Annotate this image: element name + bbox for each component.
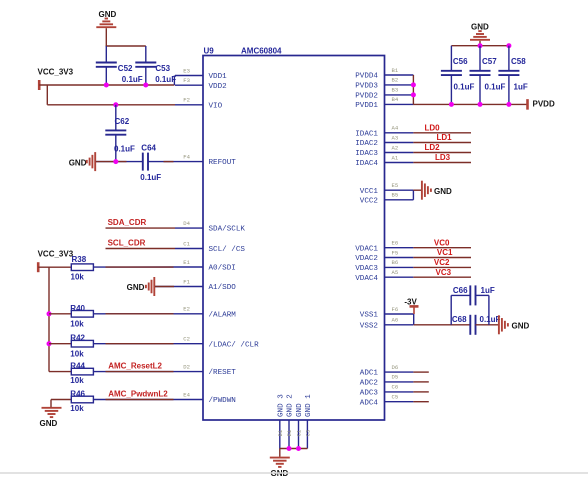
ground R46 <box>40 408 62 428</box>
svg-text:VCC1: VCC1 <box>360 188 379 196</box>
svg-text:AMC60804: AMC60804 <box>241 47 282 56</box>
ground VCC1/VCC2 <box>422 181 452 200</box>
svg-text:GND: GND <box>434 187 452 196</box>
wire R44 to /RESET <box>93 371 175 373</box>
pin VDAC1 (E6) <box>355 240 413 254</box>
pin PVDD2 (B3) <box>355 87 413 101</box>
svg-text:/PWDWN: /PWDWN <box>209 397 236 405</box>
svg-text:B6: B6 <box>392 259 399 266</box>
ground REFOUT <box>69 152 96 171</box>
svg-text:C1: C1 <box>296 429 303 436</box>
wire VC2 <box>413 266 471 268</box>
pin GND (C1) bottom <box>296 403 304 449</box>
svg-text:B3: B3 <box>392 87 399 94</box>
wire C58 top lead <box>508 46 510 71</box>
pin GND 3 (D1) bottom <box>277 394 285 449</box>
wire PVDD rail <box>413 103 527 105</box>
svg-text:ADC3: ADC3 <box>360 390 379 398</box>
wire ADC4 stub <box>413 401 428 403</box>
svg-text:/ALARM: /ALARM <box>209 311 237 319</box>
svg-text:C66: C66 <box>453 286 468 295</box>
wire LD0 <box>413 132 471 134</box>
svg-text:VIO: VIO <box>209 102 223 110</box>
wire LD2 <box>413 152 471 154</box>
svg-text:C3: C3 <box>305 430 312 437</box>
IC U9 AMC60804 body <box>203 56 385 421</box>
wire R42 to /LDAC <box>93 343 175 345</box>
wire C53 bottom lead <box>145 67 147 85</box>
svg-text:VSS2: VSS2 <box>360 322 379 330</box>
capacitor C53 <box>135 63 176 84</box>
pin VDAC3 (B6) <box>355 259 413 273</box>
net label VC3 <box>436 268 452 277</box>
svg-text:10k: 10k <box>70 404 84 413</box>
capacitor C64 <box>140 143 161 182</box>
svg-text:C57: C57 <box>482 57 497 66</box>
wire C57 top lead <box>479 46 481 71</box>
pin IDAC4 (A1) <box>355 154 413 168</box>
wire R38 to A0/SDI <box>93 266 175 268</box>
pin /LDAC/ /CLR (C2) <box>175 336 259 350</box>
svg-text:U9: U9 <box>204 47 215 56</box>
junction GND2 <box>287 446 292 451</box>
wire GND to R46 <box>51 399 71 401</box>
wire VCC pin join <box>412 190 414 200</box>
wire C66 right link <box>476 294 489 296</box>
pin PVDD3 (B2) <box>355 77 413 91</box>
junction C52/rail <box>104 83 109 88</box>
resistor R42 <box>70 334 93 359</box>
wire -3V drop <box>413 306 415 314</box>
svg-text:0.1uF: 0.1uF <box>454 83 475 92</box>
junction C62/REFOUT <box>113 159 118 164</box>
svg-text:A3: A3 <box>392 134 399 141</box>
svg-text:C1: C1 <box>183 240 190 247</box>
net label LD0 <box>425 124 441 133</box>
wire LD1 <box>413 142 471 144</box>
svg-text:A6: A6 <box>392 317 399 324</box>
wire C56 top lead <box>450 46 452 71</box>
wire bottom pin join <box>280 448 308 450</box>
svg-text:10k: 10k <box>70 376 84 385</box>
wire SDA_CDR <box>106 227 176 229</box>
capacitor C52 <box>96 63 143 84</box>
svg-text:-3V: -3V <box>404 297 417 306</box>
svg-text:D5: D5 <box>392 374 399 381</box>
wire GND to A1/SDO <box>155 286 175 288</box>
capacitor C66 <box>453 285 495 305</box>
svg-text:A4: A4 <box>392 125 399 132</box>
svg-text:IDAC2: IDAC2 <box>355 140 378 148</box>
svg-text:/LDAC/ /CLR: /LDAC/ /CLR <box>209 341 260 349</box>
ground bottom <box>270 458 290 478</box>
pin VDD2 (F3) <box>175 77 227 91</box>
svg-text:VDAC3: VDAC3 <box>355 265 378 273</box>
svg-text:VDAC1: VDAC1 <box>355 245 378 253</box>
IC part name AMC60804 <box>241 47 282 56</box>
capacitor C68 <box>452 315 501 335</box>
svg-text:REFOUT: REFOUT <box>209 159 237 167</box>
svg-text:A2: A2 <box>392 144 399 151</box>
svg-text:0.1uF: 0.1uF <box>155 75 176 84</box>
wire SCL_CDR <box>106 248 176 250</box>
svg-text:C52: C52 <box>118 64 133 73</box>
wire C62 bottom lead <box>115 135 117 162</box>
svg-text:VC0: VC0 <box>434 238 450 247</box>
svg-text:C5: C5 <box>392 394 399 401</box>
svg-text:A1: A1 <box>392 154 399 161</box>
ground top-left <box>96 10 116 27</box>
junction GND <box>296 446 301 451</box>
wire C52 top lead <box>105 46 107 63</box>
svg-text:B1: B1 <box>392 67 399 74</box>
svg-text:LD3: LD3 <box>435 153 451 162</box>
svg-text:AMC_PwdwnL2: AMC_PwdwnL2 <box>108 390 168 399</box>
svg-text:A1/SDO: A1/SDO <box>209 284 237 292</box>
svg-text:SCL_CDR: SCL_CDR <box>108 239 146 248</box>
svg-text:SDA/SCLK: SDA/SCLK <box>209 226 246 234</box>
svg-text:E6: E6 <box>392 240 399 247</box>
net label LD2 <box>425 143 441 152</box>
junction C62/VIO <box>113 102 118 107</box>
svg-text:D2: D2 <box>183 363 190 370</box>
svg-text:IDAC1: IDAC1 <box>355 130 378 138</box>
svg-text:PVDD3: PVDD3 <box>355 83 378 91</box>
wire VSS2 to C68 <box>414 324 471 326</box>
pin PVDD1 (B4) <box>355 96 413 110</box>
wire R46 to /PWDWN <box>93 399 175 401</box>
svg-text:F4: F4 <box>183 153 190 160</box>
svg-text:F5: F5 <box>392 249 399 256</box>
junction rail/C57 <box>478 43 483 48</box>
svg-text:R38: R38 <box>72 255 87 264</box>
wire C57 bottom lead <box>479 75 481 104</box>
resistor R38 <box>71 255 94 282</box>
pin VIO (F2) <box>175 97 223 111</box>
svg-text:VC2: VC2 <box>434 258 450 267</box>
svg-text:GND: GND <box>512 321 530 330</box>
wire VCC to GND <box>413 189 421 191</box>
pin VCC2 (B5) <box>360 192 414 206</box>
pin PVDD4 (B1) <box>355 67 413 81</box>
wire VC1 <box>413 257 471 259</box>
pin ADC4 (C5) <box>360 394 414 408</box>
svg-text:R40: R40 <box>70 304 85 313</box>
svg-text:E1: E1 <box>286 429 293 436</box>
svg-text:D4: D4 <box>183 220 190 227</box>
junction bus/R40 <box>47 311 52 316</box>
junction C56/PVDD <box>449 102 454 107</box>
svg-text:R44: R44 <box>70 361 85 370</box>
svg-text:ADC1: ADC1 <box>360 370 379 378</box>
ground C68 <box>499 315 530 334</box>
svg-text:GND: GND <box>99 10 117 19</box>
svg-text:E2: E2 <box>183 306 190 313</box>
svg-text:C53: C53 <box>155 64 170 73</box>
capacitor C62 <box>105 117 135 153</box>
wire C68 to GND <box>476 324 499 326</box>
wire VCC drop to VIO <box>46 85 48 105</box>
svg-text:LD1: LD1 <box>437 133 453 142</box>
svg-text:E4: E4 <box>183 391 190 398</box>
capacitor C57 <box>470 57 506 91</box>
svg-text:VDAC2: VDAC2 <box>355 255 378 263</box>
svg-text:0.1uF: 0.1uF <box>140 173 161 182</box>
svg-text:C68: C68 <box>452 315 467 324</box>
wire ADC1 stub <box>413 371 428 373</box>
svg-text:B5: B5 <box>392 192 399 199</box>
net label LD1 <box>437 133 453 142</box>
pin VDAC2 (F5) <box>355 249 413 263</box>
svg-text:GND 2: GND 2 <box>287 394 295 417</box>
svg-text:10k: 10k <box>70 320 84 329</box>
pin IDAC1 (A4) <box>355 125 413 139</box>
svg-text:D6: D6 <box>392 364 399 371</box>
pin A0/SDI (E1) <box>175 259 236 273</box>
junction C58/PVDD <box>506 102 511 107</box>
svg-text:GND: GND <box>127 283 145 292</box>
wire ADC2 stub <box>413 381 428 383</box>
svg-text:D1: D1 <box>277 429 284 436</box>
pin ADC3 (C6) <box>360 384 414 398</box>
svg-text:LD2: LD2 <box>425 143 441 152</box>
junction C57/PVDD <box>478 102 483 107</box>
svg-text:VDD2: VDD2 <box>209 83 228 91</box>
svg-text:A5: A5 <box>392 269 399 276</box>
svg-text:GND: GND <box>69 158 87 167</box>
pin VDD1 (E3) <box>175 67 227 81</box>
svg-text:IDAC3: IDAC3 <box>355 150 378 158</box>
wire C66 left link <box>451 294 470 296</box>
svg-text:VCC_3V3: VCC_3V3 <box>38 68 74 77</box>
wire VDD1 riser <box>173 76 175 86</box>
net label AMC_ResetL2 <box>108 362 162 371</box>
wire top rail C52-C53 <box>106 45 146 47</box>
wire VC3 <box>413 276 471 278</box>
pin /PWDWN (E4) <box>175 391 236 405</box>
pin IDAC3 (A2) <box>355 144 413 158</box>
net label VC2 <box>434 258 450 267</box>
svg-text:PVDD: PVDD <box>533 99 555 108</box>
pin A1/SDO (F1) <box>175 278 236 292</box>
net label SCL_CDR <box>108 239 146 248</box>
svg-text:AMC_ResetL2: AMC_ResetL2 <box>108 362 162 371</box>
svg-text:GND: GND <box>40 419 58 428</box>
pin SCL/ /CS (C1) <box>175 240 245 254</box>
svg-text:10k: 10k <box>70 349 84 358</box>
svg-text:GND 1: GND 1 <box>305 394 313 417</box>
wire R40 to /ALARM <box>93 313 175 315</box>
wire bottom GND stem <box>279 449 281 457</box>
svg-text:VC3: VC3 <box>436 268 452 277</box>
wire bus to R42 <box>49 343 71 345</box>
svg-text:F3: F3 <box>183 77 190 84</box>
net label VC1 <box>437 248 453 257</box>
ground A1/SDO <box>127 277 155 296</box>
wire VIO <box>47 104 175 106</box>
net label AMC_PwdwnL2 <box>108 390 168 399</box>
wire LD3 <box>413 162 471 164</box>
svg-text:1uF: 1uF <box>481 286 495 295</box>
svg-text:E3: E3 <box>183 67 190 74</box>
svg-text:VDAC4: VDAC4 <box>355 275 378 283</box>
svg-text:0.1uF: 0.1uF <box>485 83 506 92</box>
svg-text:0.1uF: 0.1uF <box>480 315 501 324</box>
svg-text:VC1: VC1 <box>437 248 453 257</box>
svg-text:VSS1: VSS1 <box>360 312 379 320</box>
resistor R40 <box>70 304 93 329</box>
net label SDA_CDR <box>108 218 147 227</box>
svg-text:C62: C62 <box>115 117 130 126</box>
pin SDA/SCLK (D4) <box>175 220 245 234</box>
power VCC_3V3 lower <box>38 249 74 272</box>
svg-text:0.1uF: 0.1uF <box>122 75 143 84</box>
junction PVDD2 <box>411 92 416 97</box>
pin /ALARM (E2) <box>175 306 236 320</box>
pin GND 2 (E1) bottom <box>286 394 294 449</box>
junction rail/C58 <box>506 43 511 48</box>
wire VCC_3V3 rail to VDD2 <box>39 84 174 86</box>
pin ADC1 (D6) <box>360 364 414 378</box>
power PVDD <box>528 99 555 110</box>
svg-text:C64: C64 <box>141 143 156 152</box>
wire VSS pin join <box>413 314 415 325</box>
svg-text:F2: F2 <box>183 97 190 104</box>
junction bus/R42 <box>47 341 52 346</box>
pin ADC2 (D5) <box>360 374 414 388</box>
pin VCC1 (E5) <box>360 182 414 196</box>
junction C53/rail <box>143 83 148 88</box>
svg-text:F6: F6 <box>392 306 399 313</box>
pin /RESET (D2) <box>175 363 236 377</box>
pin VDAC4 (A5) <box>355 269 413 283</box>
capacitor C56 <box>441 57 475 91</box>
junction PVDD3 <box>411 82 416 87</box>
svg-text:PVDD2: PVDD2 <box>355 93 378 101</box>
svg-text:0.1uF: 0.1uF <box>114 144 135 153</box>
svg-text:GND 3: GND 3 <box>277 394 285 417</box>
svg-text:LD0: LD0 <box>425 124 441 133</box>
svg-text:PVDD4: PVDD4 <box>355 73 378 81</box>
wire C66 right riser <box>488 295 490 324</box>
wire REFOUT left <box>96 161 143 163</box>
wire GND stem top-right <box>479 41 481 46</box>
svg-text:GND: GND <box>296 403 304 417</box>
wire C66 left riser <box>450 295 452 324</box>
svg-text:10k: 10k <box>71 272 85 281</box>
svg-text:C56: C56 <box>453 57 468 66</box>
wire VCC to R38 <box>38 266 71 268</box>
svg-text:C2: C2 <box>183 336 190 343</box>
IC refdes U9 <box>204 47 215 56</box>
svg-text:1uF: 1uF <box>514 83 528 92</box>
svg-text:/RESET: /RESET <box>209 369 237 377</box>
svg-text:ADC2: ADC2 <box>360 380 379 388</box>
pin VSS2 (A6) <box>360 317 414 331</box>
svg-text:R42: R42 <box>70 334 85 343</box>
svg-text:F1: F1 <box>183 278 190 285</box>
svg-text:C6: C6 <box>392 384 399 391</box>
pin IDAC2 (A3) <box>355 134 413 148</box>
wire REFOUT right <box>148 161 175 163</box>
wire C56 bottom lead <box>450 75 452 104</box>
power -3V <box>404 297 418 306</box>
pin REFOUT (F4) <box>175 153 236 167</box>
svg-text:E5: E5 <box>392 182 399 189</box>
resistor R44 <box>70 361 93 385</box>
wire cap top rail <box>451 45 509 47</box>
svg-text:B2: B2 <box>392 77 399 84</box>
pin GND 1 (C3) bottom <box>305 394 313 449</box>
wire PVDD pin join <box>412 75 414 104</box>
wire ADC3 stub <box>413 391 428 393</box>
svg-text:C58: C58 <box>511 57 526 66</box>
ground top-right <box>470 23 490 40</box>
svg-text:SCL/ /CS: SCL/ /CS <box>209 246 246 254</box>
resistor R46 <box>70 389 93 413</box>
svg-text:B4: B4 <box>392 96 399 103</box>
pin VSS1 (F6) <box>360 306 414 320</box>
svg-text:IDAC4: IDAC4 <box>355 160 378 168</box>
svg-text:VCC_3V3: VCC_3V3 <box>38 249 74 258</box>
svg-text:ADC4: ADC4 <box>360 399 379 407</box>
svg-text:VDD1: VDD1 <box>209 73 228 81</box>
svg-text:VCC2: VCC2 <box>360 197 379 205</box>
net label LD3 <box>435 153 451 162</box>
svg-text:SDA_CDR: SDA_CDR <box>108 218 147 227</box>
wire C53 top lead <box>145 46 147 63</box>
wire C58 bottom lead <box>508 75 510 104</box>
wire VC0 <box>413 247 471 249</box>
svg-text:A0/SDI: A0/SDI <box>209 265 236 273</box>
wire bus corner to R44 <box>49 371 71 373</box>
svg-text:R46: R46 <box>70 389 85 398</box>
svg-text:PVDD1: PVDD1 <box>355 102 378 110</box>
wire C52 bottom lead <box>105 67 107 85</box>
capacitor C58 <box>498 57 527 91</box>
wire bus to R40 <box>49 313 71 315</box>
svg-text:E1: E1 <box>183 259 190 266</box>
wire C62 top lead <box>115 105 117 131</box>
net label VC0 <box>434 238 450 247</box>
wire VCC drop bus <box>48 267 50 371</box>
wire GND riser R46 <box>50 400 52 408</box>
page border bottom <box>0 472 588 474</box>
power VCC_3V3 top <box>38 68 74 91</box>
wire GND stem to rail <box>105 28 107 46</box>
